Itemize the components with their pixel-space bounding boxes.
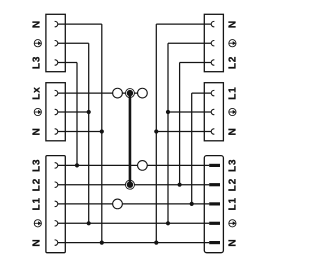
earth symbol top-left: [34, 40, 41, 47]
svg-text:N: N: [32, 239, 43, 247]
earth symbol bottom-right: [229, 220, 236, 227]
wire N top-left to vertical: [58, 23, 102, 25]
svg-text:Lx: Lx: [32, 86, 43, 99]
svg-text:L2: L2: [32, 178, 43, 191]
socket on L3 row: [138, 161, 148, 171]
wire L1 vertical right: [191, 93, 193, 204]
socket position 3 top: [138, 88, 148, 98]
svg-text:L1: L1: [32, 197, 43, 210]
wire PE vertical right: [167, 43, 169, 223]
junction PE-left / PE bottom row: [87, 221, 91, 225]
contact L1 bottom-left: [55, 201, 58, 206]
contact PE bottom-left: [55, 221, 58, 226]
svg-text:L3: L3: [228, 159, 239, 172]
plug block bottom-right (L3 L2 L1 PE N): [204, 156, 223, 253]
wire L2 vertical right: [179, 63, 181, 185]
svg-text:N: N: [32, 20, 43, 28]
svg-text:N: N: [228, 127, 239, 135]
terminal block top-right (N PE L2): [204, 14, 223, 71]
contact PE top-left: [55, 41, 58, 46]
junction N-left / N mid row: [100, 129, 104, 133]
pin N bottom-right: [209, 241, 220, 244]
svg-text:L3: L3: [32, 56, 43, 69]
earth symbol top-right: [229, 40, 236, 47]
pin L1 bottom-right: [209, 202, 220, 205]
contact N bottom-left: [55, 240, 58, 245]
wire N bottom row: [58, 242, 209, 244]
svg-text:L2: L2: [228, 56, 239, 69]
wire PE vertical left: [88, 43, 90, 223]
terminal block mid-left (Lx PE N): [46, 83, 65, 141]
jumper link Lx-L2: [129, 93, 132, 185]
wire L3 top-left to vertical: [58, 62, 77, 64]
junction L3 vertical / L3 row: [75, 163, 79, 167]
pin L3 bottom-right: [209, 164, 220, 167]
junction PE-right / PE mid row: [166, 110, 170, 114]
terminal block mid-right (L1 PE N): [204, 83, 223, 141]
pin PE bottom-right: [209, 222, 220, 225]
svg-text:N: N: [228, 20, 239, 28]
svg-text:L2: L2: [228, 178, 239, 191]
wire N top-right to vertical: [156, 23, 211, 25]
contact PE mid-left: [55, 109, 58, 114]
wire PE mid-right: [168, 111, 211, 113]
wire PE top-left to vertical: [58, 42, 89, 44]
wire PE mid-left: [58, 111, 89, 113]
contact N top-right: [211, 21, 214, 26]
earth symbol bottom-left: [34, 220, 41, 227]
contact L2 top-right: [211, 60, 214, 65]
contact N mid-left: [55, 129, 58, 134]
socket on L1 row: [113, 199, 123, 209]
contact L1 mid-right: [211, 90, 214, 95]
junction L2 vertical / L2 row: [178, 183, 182, 187]
contact N mid-right: [211, 129, 214, 134]
wire N vertical right: [155, 24, 157, 243]
junction N-right / N mid row: [154, 129, 158, 133]
wire L1 mid-right to vertical: [192, 92, 212, 94]
earth symbol mid-left: [34, 108, 41, 115]
socket position 1 top: [113, 88, 123, 98]
wire N mid-right: [156, 131, 211, 133]
junction PE-right / PE bottom row: [166, 221, 170, 225]
svg-text:L3: L3: [32, 159, 43, 172]
wire L2 bottom row: [58, 184, 209, 186]
contact L2 bottom-left: [55, 182, 58, 187]
wire Lx mid-left to socket row: [58, 92, 143, 94]
contact Lx mid-left: [55, 90, 58, 95]
svg-text:L1: L1: [228, 86, 239, 99]
wire PE bottom row: [58, 222, 209, 224]
wire L1 bottom row: [58, 203, 209, 205]
junction L1 vertical / L1 row: [190, 202, 194, 206]
wire N mid-left: [58, 131, 102, 133]
svg-text:N: N: [228, 239, 239, 247]
wire L2 top-right to vertical: [180, 62, 212, 64]
jumper plug top: [127, 90, 133, 96]
contact PE mid-right: [211, 109, 214, 114]
svg-text:N: N: [32, 127, 43, 135]
contact L3 bottom-left: [55, 163, 58, 168]
pin L2 bottom-right: [209, 183, 220, 186]
socket position 2 top (jumper plugged) ring: [125, 89, 134, 98]
contact N top-left: [55, 21, 58, 26]
wire PE top-right to vertical: [168, 42, 211, 44]
jumper plug bottom: [127, 182, 133, 188]
terminal block top-left (N PE L3): [46, 14, 65, 71]
wire L3 bottom row: [58, 164, 209, 166]
junction PE-left / PE mid row: [87, 110, 91, 114]
wire L3 vertical left: [76, 63, 78, 166]
junction N-left / N bottom row: [100, 241, 104, 245]
socket on L2 row (jumper plugged) ring: [125, 180, 134, 189]
contact PE top-right: [211, 41, 214, 46]
svg-text:L1: L1: [228, 197, 239, 210]
terminal block bottom-left (L3 L2 L1 PE N): [46, 156, 65, 253]
junction N-right / N bottom row: [154, 241, 158, 245]
earth symbol mid-right: [229, 108, 236, 115]
wire N vertical left: [101, 24, 103, 243]
contact L3 top-left: [55, 60, 58, 65]
